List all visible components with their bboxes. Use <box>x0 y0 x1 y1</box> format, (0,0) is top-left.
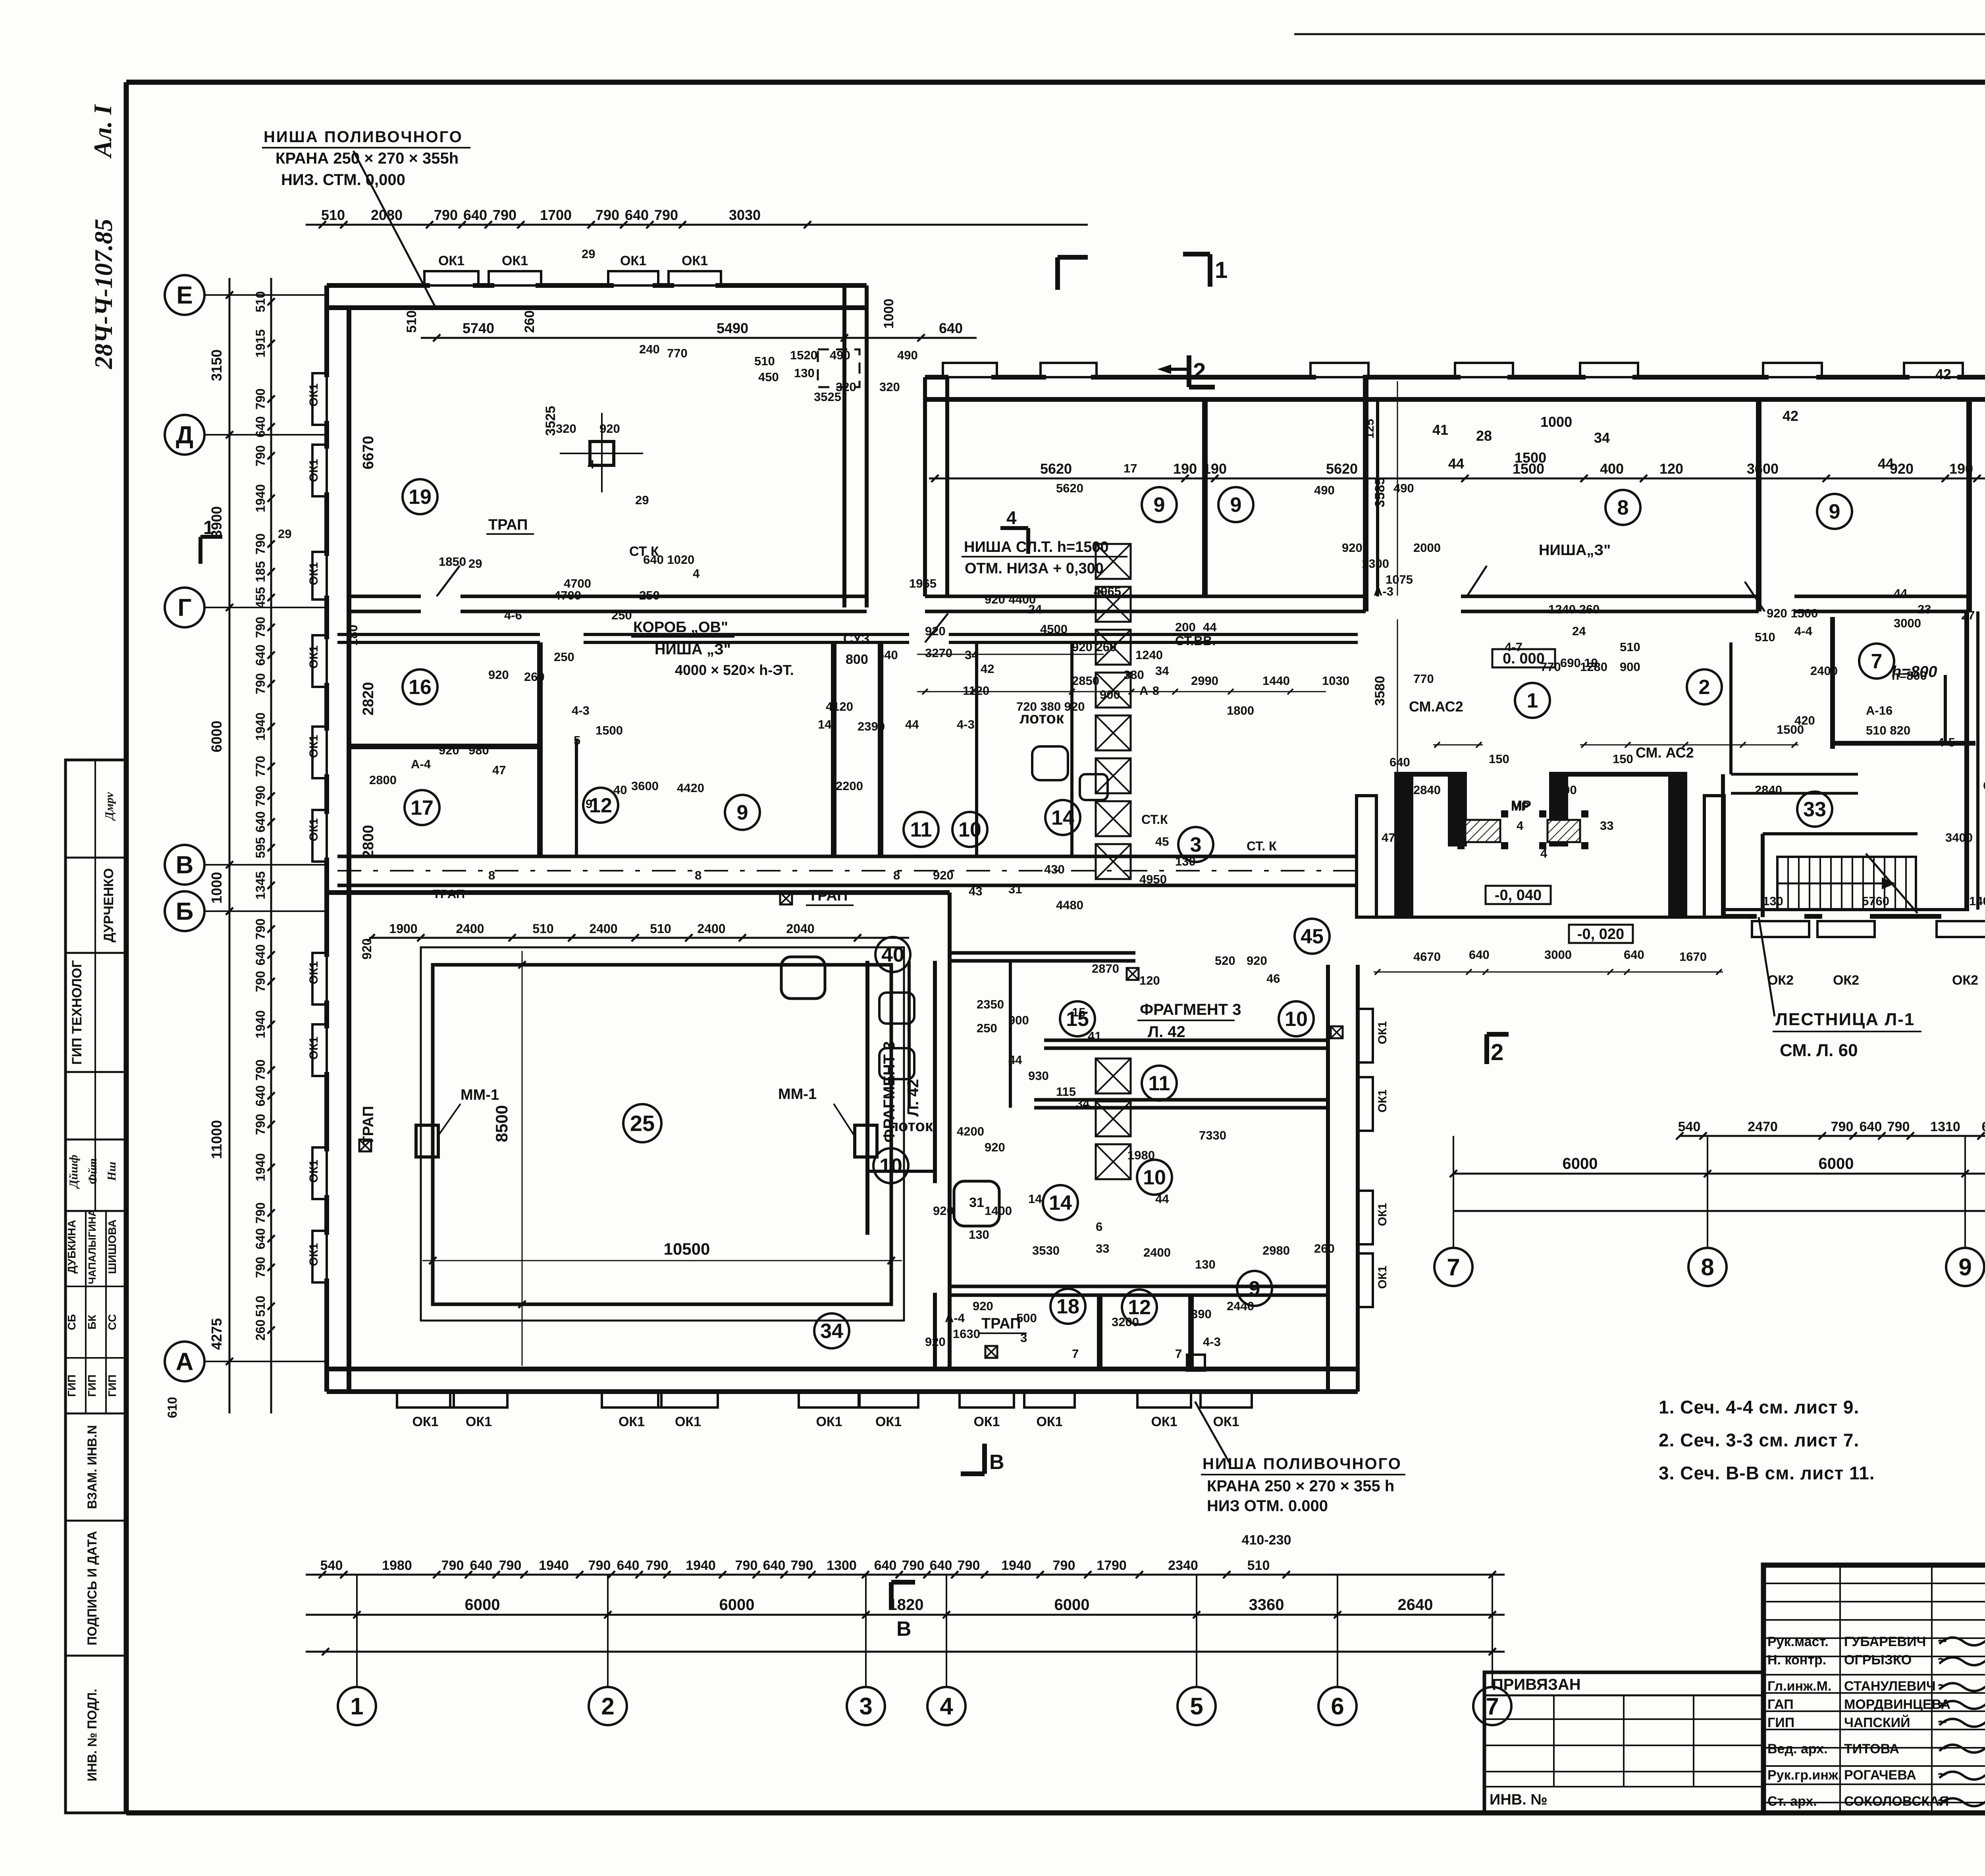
svg-text:770: 770 <box>253 756 268 777</box>
svg-text:4000 × 520× h-ЭТ.: 4000 × 520× h-ЭТ. <box>675 662 794 678</box>
svg-text:900: 900 <box>1100 688 1120 702</box>
left outer dim chain <box>229 278 231 1413</box>
room 40 <box>875 937 910 972</box>
svg-text:510: 510 <box>404 310 419 333</box>
svg-text:47: 47 <box>492 763 506 777</box>
svg-text:42: 42 <box>1935 366 1951 382</box>
room 10 <box>1279 1001 1314 1036</box>
svg-text:А-8: А-8 <box>1139 684 1159 698</box>
svg-text:40: 40 <box>881 943 904 966</box>
svg-text:790: 790 <box>902 1558 925 1573</box>
svg-text:ОК1: ОК1 <box>1376 1266 1389 1289</box>
svg-text:А-3: А-3 <box>1374 584 1393 598</box>
svg-text:5490: 5490 <box>717 320 748 336</box>
axis Е <box>165 275 204 315</box>
svg-text:1940: 1940 <box>539 1558 569 1573</box>
window OK1 east <box>1358 1009 1373 1062</box>
svg-text:640: 640 <box>253 644 268 665</box>
svg-text:6000: 6000 <box>719 1596 755 1614</box>
axis В <box>165 845 204 885</box>
svg-text:ОК1: ОК1 <box>307 818 320 841</box>
svg-text:3030: 3030 <box>729 207 761 223</box>
svg-text:2870: 2870 <box>1092 962 1119 976</box>
signatures scribbles <box>1939 1635 1985 1645</box>
svg-text:ГИП ТЕХНОЛОГ: ГИП ТЕХНОЛОГ <box>69 960 85 1064</box>
svg-text:БК: БК <box>86 1314 98 1329</box>
svg-text:595: 595 <box>253 837 268 858</box>
svg-text:1300: 1300 <box>1362 557 1389 571</box>
svg-text:24: 24 <box>1028 602 1042 616</box>
svg-text:1000: 1000 <box>208 872 225 904</box>
NW block top exterior wall <box>327 283 430 288</box>
svg-text:260: 260 <box>524 670 545 684</box>
svg-text:390: 390 <box>1191 1307 1212 1321</box>
svg-text:1300: 1300 <box>827 1558 857 1573</box>
room 14 <box>1043 1185 1078 1220</box>
svg-text:ПРИВЯЗАН: ПРИВЯЗАН <box>1492 1676 1581 1693</box>
svg-text:790: 790 <box>253 617 268 638</box>
svg-text:510: 510 <box>1620 640 1640 654</box>
svg-text:4: 4 <box>1517 819 1524 833</box>
svg-text:10: 10 <box>958 818 981 841</box>
svg-text:5740: 5740 <box>463 320 494 336</box>
svg-text:ГИП: ГИП <box>86 1375 98 1397</box>
svg-text:7: 7 <box>1447 1254 1460 1280</box>
svg-text:510: 510 <box>253 1296 268 1317</box>
svg-text:НИША СЛ.Т. h=1500: НИША СЛ.Т. h=1500 <box>964 539 1109 555</box>
room 7 <box>1859 644 1894 679</box>
window OK1 bottom <box>960 1392 1014 1407</box>
svg-text:300: 300 <box>1556 783 1577 797</box>
svg-text:630: 630 <box>1982 1119 1985 1134</box>
svg-text:120: 120 <box>1659 461 1683 477</box>
svg-text:5620: 5620 <box>1326 461 1358 477</box>
svg-text:920: 920 <box>973 1299 993 1313</box>
svg-text:ОК2: ОК2 <box>1952 973 1978 988</box>
room 33 <box>1797 792 1832 827</box>
svg-text:СБ: СБ <box>66 1314 78 1330</box>
svg-text:510: 510 <box>1247 1558 1270 1573</box>
svg-text:2: 2 <box>601 1693 614 1720</box>
svg-text:920: 920 <box>488 668 509 682</box>
svg-text:930: 930 <box>1028 1069 1049 1083</box>
svg-text:1900: 1900 <box>389 922 417 936</box>
svg-text:-0, 040: -0, 040 <box>1495 887 1542 904</box>
room 16 <box>403 669 437 704</box>
svg-text:3: 3 <box>1020 1331 1027 1345</box>
svg-text:790: 790 <box>735 1558 758 1573</box>
pool <box>421 947 904 1321</box>
room 7 walls <box>1830 617 1835 749</box>
svg-text:1240 260: 1240 260 <box>1548 602 1600 616</box>
svg-text:46: 46 <box>1266 972 1280 985</box>
svg-text:1345: 1345 <box>253 871 268 899</box>
svg-text:790: 790 <box>253 673 268 694</box>
right-mid fine chain <box>1679 1135 1985 1137</box>
right hall partitions <box>1964 611 1969 910</box>
svg-text:490: 490 <box>1393 481 1414 495</box>
svg-text:ОК1: ОК1 <box>1213 1414 1239 1429</box>
room 45 <box>1295 919 1330 954</box>
svg-text:ОК1: ОК1 <box>816 1414 842 1429</box>
svg-text:790: 790 <box>588 1558 611 1573</box>
svg-text:4420: 4420 <box>677 781 704 795</box>
svg-text:НИША„З": НИША„З" <box>1539 542 1611 559</box>
svg-text:790: 790 <box>434 207 458 223</box>
svg-text:45: 45 <box>1301 925 1324 948</box>
svg-text:Л. 42: Л. 42 <box>904 1079 922 1117</box>
window OK2 bottom <box>1752 921 1809 937</box>
svg-text:ИНВ. № ПОДЛ.: ИНВ. № ПОДЛ. <box>85 1689 99 1781</box>
svg-text:ОТМ. НИЗА + 0,300: ОТМ. НИЗА + 0,300 <box>965 560 1104 577</box>
svg-text:1630: 1630 <box>953 1327 980 1341</box>
svg-text:3. Сеч. В-В см. лист 11.: 3. Сеч. В-В см. лист 11. <box>1659 1463 1875 1483</box>
top sub chain 5740/5490 <box>421 337 977 339</box>
svg-text:6000: 6000 <box>208 721 225 752</box>
svg-text:1520: 1520 <box>790 348 817 362</box>
svg-text:43: 43 <box>969 884 982 898</box>
axis А <box>165 1342 204 1381</box>
svg-text:790: 790 <box>499 1558 522 1573</box>
fixtures <box>954 1181 999 1226</box>
svg-text:4: 4 <box>693 567 700 580</box>
room 9 <box>1218 487 1253 522</box>
window top <box>1763 363 1822 377</box>
svg-text:СТАНУЛЕВИЧ: СТАНУЛЕВИЧ <box>1844 1679 1936 1694</box>
wet core fixtures <box>879 993 914 1024</box>
svg-text:ОК1: ОК1 <box>307 562 320 585</box>
svg-text:4: 4 <box>1006 507 1017 528</box>
svg-text:ОК1: ОК1 <box>438 253 464 268</box>
svg-text:640 1020: 640 1020 <box>643 553 694 567</box>
svg-text:1000: 1000 <box>881 299 896 329</box>
svg-text:25: 25 <box>630 1111 655 1136</box>
svg-text:10500: 10500 <box>664 1240 710 1258</box>
window OK1 left <box>312 552 327 600</box>
svg-text:1790: 1790 <box>1097 1558 1127 1573</box>
svg-text:790: 790 <box>253 533 268 554</box>
svg-text:41: 41 <box>1088 1029 1101 1043</box>
svg-text:ОК1: ОК1 <box>875 1414 902 1429</box>
svg-text:ОК1: ОК1 <box>973 1414 1000 1429</box>
axis Б <box>165 891 204 931</box>
window OK1 left <box>312 1147 327 1199</box>
svg-text:Л. 42: Л. 42 <box>1148 1023 1185 1041</box>
svg-text:23: 23 <box>1918 602 1931 616</box>
window OK1 top <box>669 271 721 285</box>
svg-text:1. Сеч. 4-4 см. лист 9.: 1. Сеч. 4-4 см. лист 9. <box>1659 1397 1859 1417</box>
svg-text:Н. контр.: Н. контр. <box>1767 1652 1826 1668</box>
svg-text:4480: 4480 <box>1056 898 1083 912</box>
svg-text:34: 34 <box>1594 430 1610 446</box>
window OK1 bottom <box>658 1392 718 1407</box>
svg-text:5760: 5760 <box>1862 894 1889 908</box>
bottom niche stub <box>1187 1355 1205 1371</box>
svg-text:640: 640 <box>874 1558 897 1573</box>
svg-text:1500: 1500 <box>595 723 623 737</box>
svg-text:9: 9 <box>1230 494 1242 517</box>
svg-text:9: 9 <box>737 801 748 824</box>
svg-text:2040: 2040 <box>786 922 814 936</box>
svg-text:130: 130 <box>794 366 815 380</box>
svg-text:33: 33 <box>1096 1242 1109 1255</box>
niche 29 dashed <box>818 349 860 387</box>
svg-text:1440: 1440 <box>1262 674 1290 688</box>
svg-text:Рук.гр.инж.: Рук.гр.инж. <box>1767 1768 1842 1783</box>
svg-text:9: 9 <box>586 797 592 811</box>
room 14 <box>1045 800 1080 835</box>
svg-text:510: 510 <box>532 922 553 936</box>
svg-text:200: 200 <box>1175 620 1196 634</box>
svg-text:НИЗ ОТМ. 0.000: НИЗ ОТМ. 0.000 <box>1207 1497 1328 1515</box>
svg-text:4670: 4670 <box>1413 950 1441 964</box>
window OK1 left <box>312 810 327 862</box>
svg-text:2400: 2400 <box>1810 664 1838 678</box>
svg-text:КРАНА 250 × 270 × 355 h: КРАНА 250 × 270 × 355 h <box>1207 1477 1394 1495</box>
window top <box>1904 363 1963 377</box>
vestibule walls <box>1721 774 1725 917</box>
svg-text:790: 790 <box>646 1558 669 1573</box>
svg-text:3600: 3600 <box>631 779 659 793</box>
room 15 <box>1060 1001 1095 1036</box>
svg-text:ОК1: ОК1 <box>1151 1414 1177 1429</box>
svg-text:ОК1: ОК1 <box>307 1160 320 1183</box>
svg-text:510: 510 <box>754 354 775 368</box>
svg-text:4275: 4275 <box>208 1318 225 1350</box>
svg-text:СМ.АС2: СМ.АС2 <box>1409 698 1463 715</box>
svg-text:260: 260 <box>522 310 537 333</box>
svg-text:320: 320 <box>879 380 900 394</box>
svg-text:СТ.К: СТ.К <box>1141 812 1168 827</box>
svg-text:6: 6 <box>1331 1693 1344 1720</box>
svg-text:2. Сеч. 3-3 см. лист 7.: 2. Сеч. 3-3 см. лист 7. <box>1659 1430 1859 1450</box>
svg-text:СОКОЛОВСКАЯ: СОКОЛОВСКАЯ <box>1844 1794 1949 1809</box>
svg-text:4120: 4120 <box>826 700 853 713</box>
svg-text:Дмpv: Дмpv <box>103 792 116 821</box>
svg-text:17: 17 <box>1124 461 1137 475</box>
room 10 <box>873 1148 908 1183</box>
svg-text:790: 790 <box>441 1558 464 1573</box>
svg-text:1280: 1280 <box>1580 660 1607 674</box>
svg-text:640: 640 <box>763 1558 786 1573</box>
svg-text:540: 540 <box>320 1558 343 1573</box>
svg-text:ОК1: ОК1 <box>307 1037 320 1060</box>
svg-text:1000: 1000 <box>1540 414 1572 430</box>
inner dim chain lines <box>917 691 1326 692</box>
svg-text:17: 17 <box>410 796 434 819</box>
svg-text:455: 455 <box>253 587 268 608</box>
column in room 19 <box>590 442 614 465</box>
svg-text:ГАП: ГАП <box>1767 1697 1794 1712</box>
window OK2 bottom <box>1817 921 1875 937</box>
svg-text:640: 640 <box>253 1085 268 1106</box>
svg-text:ГИП: ГИП <box>66 1375 78 1397</box>
window OK1 left <box>312 1024 327 1076</box>
svg-text:1940: 1940 <box>253 712 268 740</box>
svg-text:31: 31 <box>969 1195 984 1210</box>
svg-text:140: 140 <box>1969 894 1985 908</box>
svg-text:14: 14 <box>1028 1192 1042 1206</box>
svg-text:СТ.К: СТ.К <box>1983 779 1985 793</box>
room 9 <box>725 795 760 830</box>
pool hall walls <box>327 890 950 895</box>
room 12 <box>583 788 618 823</box>
svg-text:ИНВ. №: ИНВ. № <box>1490 1791 1548 1808</box>
svg-text:790: 790 <box>253 971 268 992</box>
svg-text:920: 920 <box>439 743 459 757</box>
svg-text:9: 9 <box>1958 1254 1972 1280</box>
svg-text:640: 640 <box>617 1558 640 1573</box>
window OK2 bottom <box>1937 921 1985 937</box>
svg-text:3585: 3585 <box>1372 477 1388 507</box>
svg-text:ОК1: ОК1 <box>1376 1089 1389 1112</box>
svg-text:4-3: 4-3 <box>572 704 590 717</box>
svg-text:ММ-1: ММ-1 <box>778 1086 817 1103</box>
svg-text:А-4: А-4 <box>945 1311 965 1325</box>
svg-text:6000: 6000 <box>465 1596 500 1614</box>
axis Д <box>165 415 204 455</box>
svg-text:510: 510 <box>1755 630 1775 644</box>
svg-text:640: 640 <box>877 648 898 662</box>
svg-text:16: 16 <box>409 676 432 699</box>
svg-text:510: 510 <box>253 291 268 312</box>
svg-text:150: 150 <box>1613 752 1633 766</box>
section flag 2 top <box>1187 355 1191 387</box>
svg-text:КОРОБ „ОВ": КОРОБ „ОВ" <box>633 619 728 636</box>
top wall of center/right blocks <box>925 375 948 380</box>
svg-text:610: 610 <box>165 1397 179 1418</box>
corridor B-B walls <box>337 855 1358 858</box>
bottom third chain <box>306 1651 1505 1653</box>
svg-text:8: 8 <box>1701 1254 1714 1280</box>
svg-text:130: 130 <box>1175 854 1196 868</box>
svg-text:1940: 1940 <box>253 484 268 512</box>
svg-text:2840: 2840 <box>1413 783 1441 797</box>
svg-text:250: 250 <box>611 608 632 622</box>
window OK1 bottom <box>859 1392 918 1407</box>
svg-text:34: 34 <box>965 648 979 662</box>
svg-text:2: 2 <box>1193 359 1206 384</box>
svg-text:3150: 3150 <box>208 349 225 381</box>
svg-text:А-16: А-16 <box>1866 704 1892 717</box>
svg-text:790: 790 <box>253 388 268 409</box>
wet core partitions <box>975 642 978 856</box>
svg-text:130: 130 <box>1195 1257 1216 1271</box>
svg-text:ОК1: ОК1 <box>307 961 320 984</box>
svg-text:790: 790 <box>493 207 516 223</box>
svg-text:4: 4 <box>1540 846 1548 860</box>
svg-text:СТ.ВВ.: СТ.ВВ. <box>1175 634 1216 648</box>
room 9 <box>1142 487 1177 522</box>
room 8 <box>1605 490 1640 525</box>
svg-text:1700: 1700 <box>540 207 572 223</box>
svg-text:44: 44 <box>1878 455 1894 472</box>
window OK1 bottom <box>602 1392 661 1407</box>
svg-text:ДУБКИНА: ДУБКИНА <box>66 1220 78 1274</box>
paper edge top <box>1294 33 1985 35</box>
svg-text:ТРАП: ТРАП <box>981 1315 1021 1332</box>
svg-text:1940: 1940 <box>1001 1558 1031 1573</box>
svg-text:4-5: 4-5 <box>1937 735 1955 749</box>
svg-text:1915: 1915 <box>253 329 268 357</box>
svg-text:3360: 3360 <box>1249 1596 1284 1614</box>
svg-text:РОГАЧЕВА: РОГАЧЕВА <box>1844 1768 1916 1783</box>
privyazan table <box>1484 1672 1763 1813</box>
svg-text:1: 1 <box>1527 689 1538 712</box>
room 3 <box>1178 827 1213 862</box>
svg-text:44: 44 <box>1008 1053 1022 1067</box>
svg-text:А: А <box>176 1348 194 1376</box>
svg-text:490: 490 <box>1314 483 1335 497</box>
svg-text:1400: 1400 <box>985 1204 1012 1218</box>
room 17 <box>405 790 439 825</box>
svg-text:1240: 1240 <box>1135 648 1163 662</box>
window OK1 bottom <box>1201 1392 1252 1407</box>
svg-text:15: 15 <box>1072 1005 1085 1019</box>
svg-text:250: 250 <box>977 1021 997 1035</box>
svg-text:3: 3 <box>859 1693 872 1720</box>
entry mats MP <box>1465 820 1500 842</box>
window OK1 top <box>608 271 658 285</box>
svg-text:3400: 3400 <box>1945 831 1973 844</box>
center rooms partitions <box>537 642 543 856</box>
svg-text:920: 920 <box>1342 541 1363 555</box>
svg-text:1310: 1310 <box>1930 1119 1960 1134</box>
svg-text:400: 400 <box>1600 461 1624 477</box>
svg-text:Д: Д <box>176 422 193 449</box>
svg-text:4700: 4700 <box>554 588 581 602</box>
wall axis G band <box>349 595 421 598</box>
svg-text:45: 45 <box>1155 835 1169 848</box>
room 11 <box>904 812 939 847</box>
svg-text:ГИП: ГИП <box>106 1375 118 1397</box>
window OK1 east <box>1358 1253 1373 1307</box>
svg-text:800: 800 <box>846 652 868 667</box>
svg-text:2640: 2640 <box>1398 1596 1433 1614</box>
svg-text:125: 125 <box>1363 419 1376 439</box>
svg-text:1940: 1940 <box>253 1010 268 1038</box>
svg-text:4700: 4700 <box>564 576 591 590</box>
svg-text:920: 920 <box>925 1335 946 1349</box>
svg-text:27: 27 <box>1961 608 1975 622</box>
svg-text:Нш: Нш <box>105 1162 118 1181</box>
svg-text:В: В <box>989 1451 1004 1474</box>
window OK1 bottom <box>799 1392 860 1407</box>
svg-text:770: 770 <box>1413 672 1434 686</box>
svg-text:4200: 4200 <box>957 1124 984 1138</box>
svg-text:1980: 1980 <box>1127 1148 1155 1162</box>
NW block right wall <box>842 285 846 607</box>
svg-text:29: 29 <box>635 493 649 507</box>
svg-text:920 260: 920 260 <box>1072 640 1116 654</box>
top dimension chain <box>306 224 1088 226</box>
svg-text:790: 790 <box>654 207 678 223</box>
svg-text:ЧАПСКИЙ: ЧАПСКИЙ <box>1844 1715 1910 1730</box>
svg-text:920: 920 <box>933 1204 954 1218</box>
svg-text:Дйшф: Дйшф <box>67 1155 80 1189</box>
window top <box>943 363 997 377</box>
svg-text:7: 7 <box>1175 1347 1182 1361</box>
svg-text:ТРАП: ТРАП <box>808 887 848 904</box>
right axis circles 7-11 <box>1434 1248 1472 1286</box>
svg-text:10: 10 <box>1285 1008 1308 1031</box>
window top <box>1455 363 1513 377</box>
svg-text:790: 790 <box>253 1202 268 1223</box>
svg-text:44: 44 <box>1203 620 1217 634</box>
svg-text:Ал. I: Ал. I <box>89 104 117 159</box>
room 19 <box>403 479 437 514</box>
svg-text:СТ. К: СТ. К <box>1247 839 1277 853</box>
